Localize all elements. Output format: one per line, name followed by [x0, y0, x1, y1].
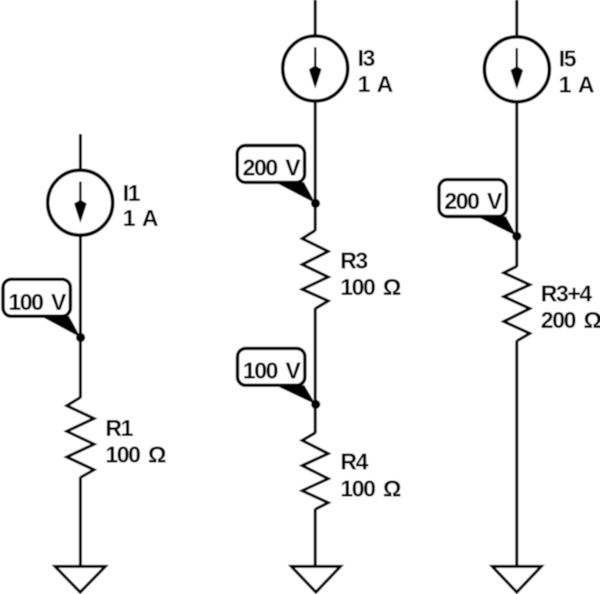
- svg-text:100 V: 100 V: [243, 357, 302, 383]
- svg-text:R4: R4: [340, 449, 368, 475]
- svg-text:1 A: 1 A: [358, 71, 393, 97]
- svg-text:200 Ω: 200 Ω: [541, 307, 600, 333]
- svg-text:R3: R3: [340, 247, 367, 273]
- svg-text:R3+4: R3+4: [541, 281, 593, 307]
- svg-text:100 V: 100 V: [8, 289, 67, 315]
- svg-text:200 V: 200 V: [243, 154, 302, 180]
- svg-text:200 V: 200 V: [444, 188, 503, 214]
- svg-text:I3: I3: [358, 45, 375, 71]
- svg-text:1 A: 1 A: [559, 71, 594, 97]
- svg-text:I5: I5: [559, 45, 577, 71]
- svg-text:I1: I1: [123, 180, 141, 206]
- svg-text:100 Ω: 100 Ω: [340, 475, 401, 501]
- svg-text:100 Ω: 100 Ω: [340, 274, 401, 300]
- svg-text:1 A: 1 A: [123, 205, 158, 231]
- svg-text:R1: R1: [105, 415, 133, 441]
- svg-text:100 Ω: 100 Ω: [105, 442, 166, 468]
